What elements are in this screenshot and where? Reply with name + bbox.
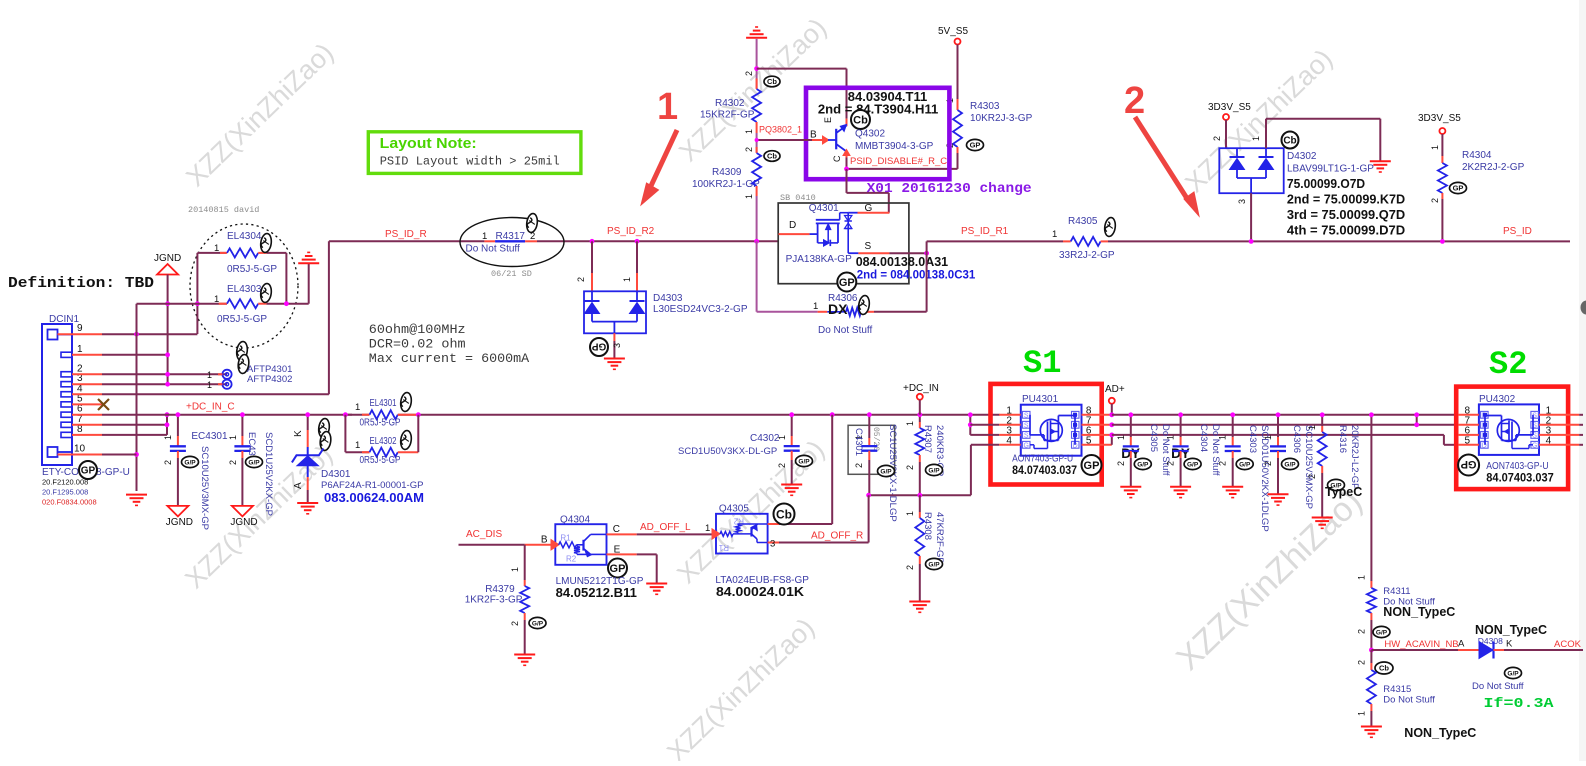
node AD_OFF junction: [866, 493, 871, 498]
svg-text:1: 1: [355, 402, 360, 413]
resistor R4307: [919, 415, 921, 422]
wire JGND to rows: [167, 275, 169, 385]
svg-text:0R5J-5-GP: 0R5J-5-GP: [217, 314, 267, 325]
scrollbar track: [1579, 0, 1586, 761]
svg-text:0R5J-5-GP: 0R5J-5-GP: [360, 455, 401, 466]
svg-text:2nd = 84.T3904.H11: 2nd = 84.T3904.H11: [818, 103, 938, 117]
capacitor C4306: [1277, 415, 1279, 437]
svg-text:G/P: G/P: [928, 467, 940, 474]
svg-text:LBAV99LT1G-1-GP: LBAV99LT1G-1-GP: [1287, 164, 1374, 175]
svg-text:020.F0834.0008: 020.F0834.0008: [42, 498, 97, 507]
svg-text:06/21 SD: 06/21 SD: [491, 269, 532, 279]
node R4304 junction: [1440, 239, 1445, 244]
stamp R4379: [529, 617, 546, 628]
svg-text:R2: R2: [566, 555, 577, 564]
power 5V_S5: [955, 39, 961, 45]
svg-text:Q4301: Q4301: [809, 203, 839, 214]
stamp C4301: [878, 465, 895, 476]
svg-text:4th = 75.00099.D7D: 4th = 75.00099.D7D: [1287, 224, 1405, 238]
svg-text:1KR2F-3-GP: 1KR2F-3-GP: [465, 595, 523, 606]
capacitor C4303: [1232, 415, 1234, 437]
wire D4303 pin3: [613, 333, 615, 341]
svg-text:EL4301: EL4301: [370, 398, 397, 409]
svg-text:PU4302: PU4302: [1479, 394, 1516, 405]
node left node junction: [195, 301, 200, 306]
svg-text:AFTP4302: AFTP4302: [247, 374, 292, 385]
wire pin1 row: [102, 354, 168, 356]
resistor R4311: [1370, 581, 1372, 588]
svg-text:DCR=0.02 ohm: DCR=0.02 ohm: [369, 337, 466, 352]
svg-text:G/P: G/P: [184, 459, 196, 466]
svg-text:S2: S2: [1489, 346, 1527, 383]
svg-text:1: 1: [510, 567, 520, 572]
svg-text:1: 1: [1357, 711, 1367, 716]
wire pin8 row: [102, 434, 167, 436]
svg-text:2: 2: [1212, 136, 1222, 141]
svg-text:0R5J-5-GP: 0R5J-5-GP: [360, 418, 401, 429]
svg-text:JGND: JGND: [154, 253, 181, 264]
svg-text:2: 2: [1307, 474, 1317, 479]
svg-text:1: 1: [207, 370, 212, 380]
wire PS_ID_R horizontal: [329, 240, 485, 242]
wire S1 pin5 jog: [1111, 435, 1113, 445]
wire row6 right: [1112, 434, 1444, 436]
svg-text:2: 2: [1430, 198, 1440, 203]
svg-text:3rd = 75.00099.Q7D: 3rd = 75.00099.Q7D: [1287, 208, 1405, 222]
svg-text:1: 1: [1166, 435, 1176, 440]
svg-text:Do Not Stuff: Do Not Stuff: [818, 325, 873, 336]
wire 3D3V to D4302: [1225, 120, 1227, 148]
svg-text:PS_ID_R2: PS_ID_R2: [607, 226, 655, 237]
stamp S1 GP: [1082, 455, 1102, 475]
arrow 1: [650, 130, 677, 188]
svg-text:JGND: JGND: [166, 517, 193, 528]
svg-text:R1: R1: [718, 543, 729, 552]
svg-text:1: 1: [705, 523, 710, 534]
svg-text:Do Not Stuff: Do Not Stuff: [1383, 695, 1435, 706]
wire EL pair right vertical: [285, 253, 287, 304]
svg-text:20140815 david: 20140815 david: [188, 205, 259, 215]
svg-text:SB 0410: SB 0410: [780, 193, 816, 203]
svg-text:Cb: Cb: [767, 152, 777, 161]
svg-text:1: 1: [1251, 136, 1261, 141]
svg-text:2: 2: [905, 565, 915, 570]
svg-text:3D3V_S5: 3D3V_S5: [1418, 113, 1461, 124]
svg-text:TypeC: TypeC: [1325, 485, 1362, 499]
svg-text:GP: GP: [1461, 458, 1477, 470]
svg-text:PS_ID_R1: PS_ID_R1: [961, 226, 1009, 237]
stamp R4307: [926, 464, 943, 475]
node rows jog junctions: [1414, 412, 1419, 417]
wire pin2 row: [102, 373, 227, 375]
stamp R4309: [764, 151, 780, 162]
svg-text:1: 1: [622, 277, 632, 282]
stamp R4305: [1104, 217, 1117, 237]
stamp R4316: [1328, 479, 1345, 490]
svg-text:2: 2: [854, 463, 864, 468]
svg-text:G/P: G/P: [1137, 461, 1149, 468]
svg-text:1: 1: [355, 440, 360, 451]
svg-text:Do Not Stuff: Do Not Stuff: [1210, 424, 1221, 476]
svg-text:C4305: C4305: [1148, 424, 1159, 452]
svg-text:Layout Note:: Layout Note:: [380, 136, 477, 152]
diode D4302: [1219, 148, 1283, 193]
capacitor C4302: [791, 415, 793, 436]
svg-text:C: C: [613, 524, 620, 535]
stamp Q4304 GP: [608, 559, 627, 578]
stamp R4311: [1373, 626, 1390, 637]
svg-text:1: 1: [657, 86, 678, 128]
svg-text:S1: S1: [1023, 345, 1061, 382]
svg-text:Definition: TBD: Definition: TBD: [8, 276, 154, 292]
arrow 2: [1135, 117, 1188, 200]
svg-text:HW_ACAVIN_NB: HW_ACAVIN_NB: [1384, 639, 1458, 650]
svg-text:3: 3: [770, 539, 775, 550]
box S2 red: [1456, 387, 1568, 490]
svg-text:1: 1: [1263, 435, 1273, 440]
svg-text:GP: GP: [81, 466, 96, 477]
svg-text:NON_TypeC: NON_TypeC: [1475, 623, 1547, 637]
svg-text:1: 1: [1430, 145, 1440, 150]
stamp D4303 GP: [590, 338, 608, 356]
node AD+ junction: [1109, 412, 1114, 417]
svg-text:PQ3802_1: PQ3802_1: [759, 125, 802, 135]
svg-text:84.00024.01K: 84.00024.01K: [716, 585, 804, 599]
wire AC_DIS: [459, 544, 525, 546]
svg-text:2nd = 084.00138.0C31: 2nd = 084.00138.0C31: [857, 270, 976, 282]
svg-text:1: 1: [1307, 425, 1317, 430]
svg-text:EL4303: EL4303: [227, 284, 262, 295]
svg-text:MMBT3904-3-GP: MMBT3904-3-GP: [855, 141, 934, 152]
svg-text:1: 1: [905, 421, 915, 426]
ground R4315: [1361, 726, 1382, 728]
wire D4302 pin3: [1250, 193, 1252, 241]
svg-text:2: 2: [1218, 461, 1228, 466]
svg-text:G/P: G/P: [1284, 461, 1296, 468]
svg-text:+DC_IN: +DC_IN: [903, 383, 939, 394]
wire AD_OFF_L: [607, 533, 637, 535]
svg-text:2: 2: [510, 621, 520, 626]
svg-text:R4315: R4315: [1383, 684, 1411, 695]
svg-text:C4304: C4304: [1198, 424, 1209, 452]
wire PS_ID_R vertical: [328, 241, 330, 394]
stamp EC4301: [182, 456, 199, 467]
node R4309 junction: [754, 239, 759, 244]
node EC4301 junction: [176, 412, 181, 417]
stamp C4302: [796, 455, 813, 466]
wire emitter branch: [757, 68, 847, 70]
wire HW_ACAVIN row: [1371, 649, 1458, 651]
wire EL pair left vertical: [196, 253, 198, 334]
svg-text:G/P: G/P: [1376, 629, 1388, 636]
resistor R4304: [1441, 134, 1443, 156]
svg-text:Cb: Cb: [776, 507, 792, 521]
capacitor C4305 DY: [1130, 415, 1132, 437]
svg-text:2: 2: [163, 460, 173, 465]
svg-text:2nd = 75.00099.K7D: 2nd = 75.00099.K7D: [1287, 193, 1405, 207]
wire S2 pin5 jog: [1443, 435, 1445, 445]
node S junction: [924, 251, 929, 256]
svg-text:DX: DX: [828, 301, 848, 317]
node emitter branch junction: [754, 66, 759, 71]
svg-text:2: 2: [744, 71, 754, 76]
svg-text:84.05212.B11: 84.05212.B11: [556, 586, 637, 600]
box S1 red: [991, 384, 1102, 485]
svg-text:G: G: [1532, 442, 1537, 449]
ground below connector: [126, 494, 147, 496]
resistor R4316: [1321, 415, 1323, 426]
wire pin10 row: [102, 454, 137, 456]
node pin1 junction: [165, 352, 170, 357]
wire R4309 down to DX row: [756, 241, 758, 311]
stamp EC4302: [246, 456, 263, 467]
stamp D4302 Cb: [1282, 132, 1299, 149]
svg-text:1: 1: [1116, 435, 1126, 440]
svg-text:2: 2: [777, 463, 787, 468]
wire Q4305 top pin: [768, 523, 779, 525]
svg-text:K: K: [293, 430, 304, 437]
svg-text:3: 3: [1237, 199, 1247, 204]
node D4303 pin2 junction: [590, 239, 595, 244]
svg-text:G/P: G/P: [1507, 670, 1519, 677]
svg-text:Max current = 6000mA: Max current = 6000mA: [369, 351, 530, 366]
dashed circle: [190, 224, 298, 348]
svg-text:15KR2F-GP: 15KR2F-GP: [700, 110, 755, 121]
wire +DC_IN_C bus: [102, 414, 370, 416]
stamp EL4301: [400, 392, 413, 412]
stamp R4308: [926, 558, 943, 569]
svg-text:B: B: [810, 130, 817, 141]
node EL4301 right junction: [416, 412, 421, 417]
node Q4305 riser junction: [830, 412, 835, 417]
svg-text:60ohm@100MHz: 60ohm@100MHz: [369, 322, 466, 337]
svg-text:K: K: [1506, 639, 1513, 650]
wire R4303 to collector node: [957, 153, 959, 169]
wire PS_ID line right: [1108, 240, 1570, 242]
stamp S2 GP: [1458, 455, 1479, 476]
node D4303 pin1 junction: [635, 239, 640, 244]
svg-text:SC10U25V3MX-GP: SC10U25V3MX-GP: [199, 446, 210, 530]
svg-text:3: 3: [612, 343, 622, 348]
svg-text:R4305: R4305: [1068, 216, 1098, 227]
stamp D4308: [1505, 667, 1522, 678]
svg-text:1: 1: [163, 435, 173, 440]
svg-text:G/P: G/P: [1239, 461, 1251, 468]
svg-text:NON_TypeC: NON_TypeC: [1404, 726, 1476, 740]
svg-text:EL4302: EL4302: [370, 436, 397, 447]
resistor EL4301: [345, 414, 352, 416]
node C4301 junction: [867, 412, 872, 417]
wire R4302-R4309: [756, 133, 758, 152]
wire pin9 row: [102, 333, 197, 335]
svg-text:AD_OFF_L: AD_OFF_L: [640, 522, 691, 533]
stamp Q4305 Cb: [774, 504, 795, 525]
ground R4379: [514, 654, 535, 656]
wire row AD+ right: [1112, 414, 1458, 416]
node JGND-ELrow junction: [165, 301, 170, 306]
svg-text:R4379: R4379: [485, 584, 515, 595]
svg-text:20KR2J-L2-GP: 20KR2J-L2-GP: [1349, 425, 1360, 489]
ground D4302: [1370, 160, 1391, 162]
box Q4301: [778, 203, 909, 284]
svg-text:D: D: [789, 220, 796, 231]
svg-text:EC4301: EC4301: [191, 431, 228, 442]
svg-text:5V_S5: 5V_S5: [938, 26, 968, 37]
svg-text:GP: GP: [591, 340, 606, 351]
stamp R4306: [858, 295, 871, 315]
svg-text:1: 1: [1357, 575, 1367, 580]
power 3D3V_S5 R4304: [1439, 128, 1445, 134]
svg-text:A: A: [293, 482, 304, 489]
svg-text:GP: GP: [839, 277, 855, 289]
svg-text:R4308: R4308: [922, 512, 933, 540]
node EL4301 junction: [343, 412, 348, 417]
wire S1 left jogs: [969, 415, 971, 435]
svg-text:SCD1U25V2KX-GP: SCD1U25V2KX-GP: [263, 432, 274, 516]
svg-text:ACOK: ACOK: [1554, 639, 1582, 650]
ground D4301: [297, 502, 318, 504]
stamp connector GP: [79, 461, 97, 479]
svg-text:PS_ID: PS_ID: [1503, 226, 1532, 237]
ground top inverted: [746, 37, 767, 39]
stamp R4317: [526, 213, 539, 233]
svg-text:2: 2: [1357, 660, 1367, 665]
svg-text:JGND: JGND: [230, 517, 257, 528]
box C4301 gray: [848, 425, 895, 474]
stamp EL4302: [400, 430, 413, 450]
svg-text:GP: GP: [970, 141, 981, 150]
svg-text:X01 20161230 change: X01 20161230 change: [867, 182, 1032, 197]
stamp AFTP: [236, 341, 249, 361]
oval Do-Not-Stuff R4317: [460, 218, 564, 267]
svg-text:2: 2: [905, 465, 915, 470]
svg-text:D4302: D4302: [1287, 151, 1317, 162]
node D4301 junction: [305, 412, 310, 417]
svg-text:G/P: G/P: [928, 561, 940, 568]
svg-text:Q4302: Q4302: [855, 129, 885, 140]
svg-text:G: G: [1023, 442, 1028, 449]
resistor R4315: [1370, 650, 1372, 663]
wire AD_OFF_R row: [869, 494, 971, 496]
node collector junction: [846, 158, 848, 169]
svg-text:R4309: R4309: [712, 167, 742, 178]
svg-text:Cb: Cb: [1379, 664, 1389, 673]
scrollbar thumb: [1581, 301, 1586, 315]
stamp R4304: [1450, 182, 1467, 193]
svg-text:R4311: R4311: [1383, 586, 1410, 597]
ground JGND EC4301: [167, 506, 188, 517]
svg-text:1: 1: [744, 194, 754, 199]
resistor EL4302: [344, 415, 346, 453]
svg-text:1: 1: [744, 129, 754, 134]
ground R4308: [909, 601, 930, 603]
node S1 jog junctions: [968, 412, 973, 417]
box Q4302 purple: [806, 88, 949, 179]
svg-text:1: 1: [207, 380, 212, 390]
stamp D4301: [318, 418, 331, 438]
stamp R4302: [764, 76, 780, 87]
wire Q4302 collector stub: [846, 150, 848, 158]
ground JGND EC4302: [232, 506, 253, 517]
svg-text:C: C: [832, 155, 842, 162]
svg-text:SCD01U50V2KX-1DLGP: SCD01U50V2KX-1DLGP: [1259, 425, 1270, 532]
wire 5V to R4303: [957, 45, 959, 100]
diode D4303: [591, 241, 593, 273]
svg-text:NON_TypeC: NON_TypeC: [1383, 605, 1455, 619]
svg-text:AD_OFF_R: AD_OFF_R: [811, 531, 863, 542]
capacitor C4304 DY: [1180, 415, 1182, 437]
svg-text:0R5J-5-GP: 0R5J-5-GP: [227, 264, 277, 275]
svg-text:10: 10: [74, 444, 86, 455]
node pin3 junction: [165, 382, 170, 387]
svg-text:2K2R2J-2-GP: 2K2R2J-2-GP: [1462, 162, 1525, 173]
svg-text:C4302: C4302: [750, 433, 780, 444]
capacitor C4301: [868, 415, 870, 438]
svg-text:1: 1: [228, 435, 238, 440]
svg-text:C4306: C4306: [1291, 425, 1302, 453]
wire D4302 pin1 to ground: [1265, 119, 1267, 149]
svg-text:C4303: C4303: [1247, 425, 1258, 453]
svg-text:EL4304: EL4304: [227, 231, 262, 242]
svg-text:L30ESD24VC3-2-GP: L30ESD24VC3-2-GP: [653, 304, 748, 315]
ground Q4304: [646, 583, 667, 585]
wire Q4302 base: [757, 139, 812, 141]
ground D4303: [604, 358, 625, 360]
svg-text:1: 1: [905, 511, 915, 516]
svg-text:PU4301: PU4301: [1022, 394, 1059, 405]
box Layout Note: [368, 132, 581, 174]
svg-text:G/P: G/P: [248, 459, 260, 466]
wire pin4 row: [102, 393, 329, 395]
svg-text:PSID_DISABLE#_R_C: PSID_DISABLE#_R_C: [850, 156, 947, 167]
node EC4302 junction: [240, 412, 245, 417]
svg-text:20.F2120.008: 20.F2120.008: [42, 478, 88, 487]
svg-text:GP: GP: [610, 563, 626, 575]
wire Q4304 emitter to ground: [607, 553, 637, 555]
svg-text:84.07403.037: 84.07403.037: [1486, 473, 1554, 485]
node pin2 junction: [165, 372, 170, 377]
svg-text:S: S: [865, 241, 872, 252]
svg-text:AON7403-GP-U: AON7403-GP-U: [1486, 461, 1548, 472]
svg-text:S: S: [1024, 412, 1029, 419]
svg-text:3D3V_S5: 3D3V_S5: [1208, 102, 1251, 113]
node pin9 junction: [134, 332, 139, 337]
svg-text:PS_ID_R: PS_ID_R: [385, 229, 427, 240]
power 3D3V_S5 D4302: [1223, 114, 1229, 120]
wire R4309 to main line: [756, 196, 758, 241]
wire collector to gate: [846, 169, 848, 193]
svg-text:2: 2: [1124, 80, 1145, 122]
diode D4301 TVS: [307, 415, 309, 430]
svg-text:2: 2: [228, 460, 238, 465]
svg-text:PJA138KA-GP: PJA138KA-GP: [786, 254, 852, 265]
svg-text:75.00099.O7D: 75.00099.O7D: [1287, 177, 1365, 191]
node right node junction: [284, 301, 289, 306]
svg-text:SC10U25V3MX-GP: SC10U25V3MX-GP: [1303, 425, 1314, 509]
svg-text:A: A: [1458, 639, 1465, 650]
svg-text:AC_DIS: AC_DIS: [466, 529, 502, 540]
wire rows jog x1416: [1416, 415, 1418, 425]
svg-text:Cb: Cb: [1283, 136, 1296, 147]
svg-text:2: 2: [1263, 461, 1273, 466]
svg-text:R4316: R4316: [1337, 425, 1348, 453]
node R4307 junction: [917, 412, 922, 417]
svg-text:2: 2: [576, 277, 586, 282]
stamp R4303: [967, 139, 984, 150]
svg-text:083.00624.00AM: 083.00624.00AM: [324, 490, 424, 505]
node C4302 junction: [789, 412, 794, 417]
svg-text:2: 2: [1357, 629, 1367, 634]
